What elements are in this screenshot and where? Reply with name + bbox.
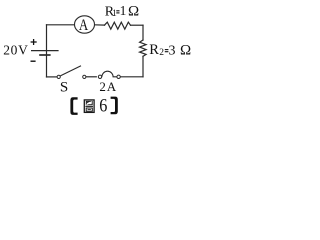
battery minus sign — [31, 60, 36, 62]
svg-text:6: 6 — [99, 94, 107, 116]
resistor R1 zigzag — [105, 22, 131, 29]
fuse element arc — [102, 71, 117, 77]
svg-text:A: A — [79, 17, 89, 34]
battery plus sign — [31, 39, 37, 45]
svg-text:20V: 20V — [3, 42, 28, 57]
svg-text:R: R — [149, 42, 159, 58]
fuse left terminal — [98, 75, 101, 78]
switch S right terminal — [83, 75, 86, 78]
fuse right terminal — [117, 75, 120, 78]
wire top-left horizontal — [47, 24, 75, 26]
battery negative plate — [39, 54, 50, 56]
wire ammeter to R1 — [95, 24, 105, 26]
svg-text:2A: 2A — [99, 79, 116, 94]
caption right lenticular bracket — [111, 97, 118, 115]
svg-text:Ω: Ω — [128, 4, 139, 20]
switch S left terminal — [57, 75, 60, 78]
wire fuse to switch — [86, 76, 96, 78]
wire left vertical — [46, 25, 48, 77]
svg-text:2: 2 — [159, 48, 164, 58]
wire right vertical lower — [142, 56, 144, 77]
wire bottom right segment — [120, 76, 143, 78]
wire right vertical upper — [142, 25, 144, 40]
caption glyph tu (figure) — [84, 100, 94, 113]
svg-text:3: 3 — [169, 44, 176, 59]
svg-text:1: 1 — [120, 3, 127, 18]
resistor R2 zigzag — [140, 40, 147, 56]
switch S blade — [60, 66, 81, 76]
ammeter U1 circle — [75, 16, 95, 33]
wire switch to left corner — [47, 76, 58, 78]
svg-text:Ω: Ω — [180, 43, 191, 59]
wire R1 to top-right corner — [131, 24, 144, 26]
svg-text:1: 1 — [112, 8, 117, 18]
svg-text:S: S — [60, 79, 68, 95]
label R2 value — [149, 42, 191, 58]
battery positive plate — [31, 50, 59, 52]
caption left lenticular bracket — [70, 97, 77, 115]
label R1 value — [105, 3, 139, 20]
